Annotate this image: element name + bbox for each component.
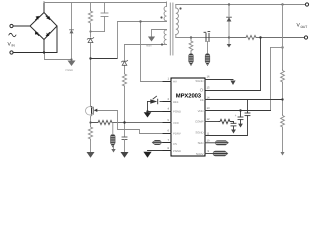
svg-text:HV: HV <box>173 80 177 84</box>
svg-text:FB: FB <box>200 98 204 102</box>
svg-text:+: + <box>235 113 237 117</box>
svg-text:SDRV: SDRV <box>196 152 204 156</box>
svg-text:REF: REF <box>173 100 179 104</box>
svg-text:CS: CS <box>173 142 177 146</box>
svg-text:VCC: VCC <box>173 121 179 125</box>
svg-text:2: 2 <box>168 98 170 101</box>
svg-text:9: 9 <box>208 150 210 153</box>
svg-text:7: 7 <box>168 139 170 142</box>
svg-text:6: 6 <box>168 130 170 133</box>
svg-text:PGND: PGND <box>173 110 181 114</box>
svg-text:COMP: COMP <box>195 120 204 124</box>
svg-text:13: 13 <box>207 107 210 110</box>
svg-text:main: main <box>146 45 152 48</box>
svg-text:PGND: PGND <box>66 69 74 72</box>
svg-text:16: 16 <box>207 76 210 79</box>
svg-text:1: 1 <box>168 78 170 81</box>
svg-text:SGND: SGND <box>195 131 203 135</box>
svg-text:PGND: PGND <box>173 149 181 153</box>
svg-text:PDRV: PDRV <box>173 132 181 136</box>
svg-text:SGND: SGND <box>195 79 203 83</box>
svg-text:OUT: OUT <box>301 25 308 29</box>
svg-text:SRD: SRD <box>198 141 204 145</box>
svg-text:10: 10 <box>207 140 210 143</box>
svg-text:15: 15 <box>207 87 210 90</box>
svg-text:5: 5 <box>168 119 170 122</box>
svg-text:12: 12 <box>207 118 210 121</box>
svg-text:IN: IN <box>12 44 16 48</box>
svg-text:MPX2003: MPX2003 <box>176 93 202 100</box>
svg-text:VDD: VDD <box>198 109 204 113</box>
svg-text:8: 8 <box>168 147 170 150</box>
svg-text:4: 4 <box>168 108 170 111</box>
